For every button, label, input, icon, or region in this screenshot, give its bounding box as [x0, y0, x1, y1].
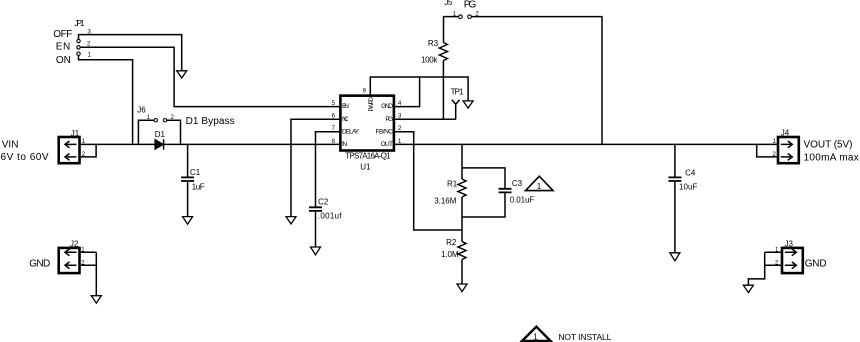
svg-text:TP1: TP1 [451, 88, 464, 97]
svg-text:FB/NC: FB/NC [376, 129, 394, 136]
svg-text:10uF: 10uF [679, 182, 698, 191]
svg-text:100mA max: 100mA max [804, 152, 859, 163]
svg-text:C4: C4 [685, 169, 696, 178]
svg-text:100k: 100k [421, 56, 438, 65]
svg-text:JP1: JP1 [74, 19, 85, 28]
svg-text:6V to 60V: 6V to 60V [1, 152, 49, 163]
svg-text:PG: PG [385, 116, 393, 123]
svg-text:R2: R2 [446, 238, 457, 247]
svg-text:TPS7A16A-Q1: TPS7A16A-Q1 [345, 152, 391, 161]
svg-text:J2: J2 [70, 240, 79, 249]
svg-text:R3: R3 [428, 39, 439, 48]
svg-text:.001uf: .001uf [318, 212, 342, 221]
svg-text:R1: R1 [447, 180, 458, 189]
svg-text:DELAY: DELAY [342, 129, 360, 136]
svg-text:C3: C3 [512, 179, 523, 188]
svg-text:1uF: 1uF [192, 183, 205, 192]
svg-text:GND: GND [29, 259, 50, 270]
svg-text:OUT: OUT [381, 141, 393, 148]
svg-text:GND: GND [805, 259, 827, 270]
svg-text:VIN: VIN [2, 140, 19, 151]
svg-text:PWPD: PWPD [368, 97, 375, 112]
svg-text:1: 1 [533, 332, 538, 341]
svg-text:J3: J3 [785, 240, 794, 249]
svg-text:VOUT (5V): VOUT (5V) [804, 139, 853, 150]
svg-text:D1 Bypass: D1 Bypass [186, 116, 235, 127]
svg-text:1: 1 [537, 182, 542, 191]
svg-text:C1: C1 [190, 168, 201, 177]
svg-text:J1: J1 [71, 129, 80, 138]
svg-text:J4: J4 [781, 128, 790, 137]
svg-text:NC: NC [342, 116, 349, 123]
svg-text:U1: U1 [360, 163, 371, 172]
svg-text:PG: PG [464, 0, 477, 11]
svg-text:J5: J5 [444, 0, 453, 7]
svg-text:0.01uF: 0.01uF [510, 196, 535, 205]
svg-text:C2: C2 [318, 198, 329, 207]
svg-text:J6: J6 [137, 105, 146, 114]
svg-text:NOT INSTALL: NOT INSTALL [558, 332, 611, 342]
svg-text:IN: IN [342, 141, 347, 148]
svg-text:EN: EN [342, 103, 349, 110]
svg-text:OFF: OFF [53, 29, 72, 40]
svg-text:D1: D1 [155, 130, 166, 139]
svg-text:3.16M: 3.16M [434, 196, 457, 205]
svg-text:ON: ON [56, 55, 71, 66]
svg-text:EN: EN [56, 41, 70, 52]
svg-text:GND: GND [381, 103, 393, 110]
svg-text:1.0M: 1.0M [441, 250, 459, 259]
